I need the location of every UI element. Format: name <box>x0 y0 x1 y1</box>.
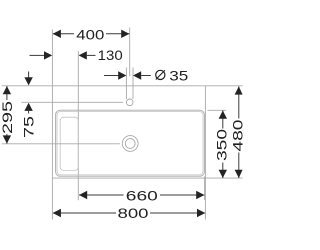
svg-text:480: 480 <box>230 119 246 151</box>
svg-text:295: 295 <box>0 101 15 134</box>
svg-text:800: 800 <box>118 205 149 221</box>
svg-text:400: 400 <box>76 26 104 42</box>
svg-text:350: 350 <box>214 129 230 161</box>
svg-text:75: 75 <box>21 116 37 138</box>
svg-text:130: 130 <box>98 47 123 63</box>
svg-text:35: 35 <box>169 67 188 83</box>
svg-text:660: 660 <box>126 187 158 203</box>
